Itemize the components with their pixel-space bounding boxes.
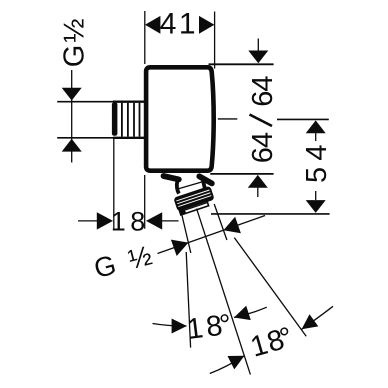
dimension 54 top arrow and stub bbox=[306, 120, 326, 133]
dimension 18 right arrow bbox=[146, 212, 162, 229]
angle dim B right arrow bbox=[302, 314, 319, 329]
dimension 54 bottom stub and arrow bbox=[315, 191, 317, 200]
dimension 64/64 top tick bbox=[209, 63, 274, 65]
angle dim A left leader bbox=[153, 324, 187, 327]
spray line L1 (vertical, 0 deg) bbox=[186, 252, 190, 348]
dimension 41 extension line right bbox=[214, 12, 216, 69]
svg-text:41: 41 bbox=[160, 8, 198, 41]
spray line L2 (18 deg) bbox=[197, 209, 251, 375]
G 1/2 dimension top arrow bbox=[62, 88, 82, 101]
outlet neck flange line bbox=[179, 181, 205, 189]
dimension 64/64 slash bbox=[250, 115, 273, 127]
outlet escutcheon rim right stroke bbox=[199, 176, 212, 183]
svg-text:G ½: G ½ bbox=[59, 19, 91, 68]
connector thick left face bbox=[112, 102, 118, 136]
dimension 18 left arrow bbox=[97, 212, 113, 229]
dimension 64/64 top stub and arrow bbox=[257, 39, 259, 53]
G 1/2 thread-height dimension line bbox=[71, 70, 73, 163]
dimension 54 top reference / centerline bbox=[277, 118, 329, 120]
thread width extension line right (parallel to outlet axis) bbox=[214, 204, 227, 240]
dimension 54 bottom reference line (outlet end level) bbox=[211, 213, 330, 215]
angle dim A left arrow bbox=[172, 319, 187, 334]
G 1/2 dimension bottom arrow bbox=[62, 139, 82, 152]
angle dim A right leader bbox=[234, 307, 267, 317]
outlet neck right edge bbox=[203, 180, 205, 191]
dimension 18 tail right bbox=[162, 220, 179, 222]
threaded wall connector body bbox=[113, 102, 146, 138]
dimension 18 left extension line bbox=[113, 139, 115, 230]
outlet swivel nut (tilted, black with white slits) bbox=[173, 186, 214, 212]
spray line L3 (36 deg) bbox=[234, 238, 306, 337]
G 1/2 dimension bottom tick bbox=[57, 137, 114, 139]
outlet escutcheon rim left stroke bbox=[164, 176, 179, 179]
outlet neck left edge bbox=[177, 181, 179, 194]
svg-text:64: 64 bbox=[247, 132, 279, 163]
dimension 41 extension line left bbox=[144, 11, 146, 64]
dimension 64/64 bottom tick bbox=[210, 173, 273, 175]
dimension 41 right arrow bbox=[199, 16, 214, 34]
angle dim A right arrow bbox=[234, 306, 251, 320]
centerline dash left of 64/64 label bbox=[218, 118, 238, 120]
angle dim B right leader bbox=[302, 306, 333, 329]
dimension 18 right extension line bbox=[144, 175, 146, 229]
G 1/2 hose thread dimension left arrow bbox=[171, 240, 189, 256]
dimension 18 tail left bbox=[78, 220, 97, 222]
G 1/2 dimension top tick bbox=[57, 101, 114, 103]
svg-text:5 4: 5 4 bbox=[301, 145, 333, 183]
svg-text:1 8: 1 8 bbox=[111, 207, 145, 237]
G 1/2 hose thread dimension line (perpendicular to outlet axis) bbox=[158, 216, 266, 254]
dimension 41 left arrow bbox=[145, 16, 160, 34]
wall plate (side view, thick outline with convex front face) bbox=[146, 67, 214, 170]
angle dim B left leader bbox=[210, 356, 245, 374]
svg-text:18°: 18° bbox=[185, 308, 236, 346]
angle dim B left arrow bbox=[228, 356, 245, 370]
thread width extension line left (parallel to outlet axis) bbox=[181, 213, 191, 254]
svg-text:64: 64 bbox=[247, 76, 279, 107]
connector thread hatch lines bbox=[122, 103, 140, 137]
dimension 64/64 bottom arrow and stub bbox=[248, 175, 268, 188]
G 1/2 hose thread dimension right arrow bbox=[223, 217, 241, 233]
outlet G1/2 hose thread (tilted open band with dark cap, behind nut) bbox=[177, 196, 209, 216]
